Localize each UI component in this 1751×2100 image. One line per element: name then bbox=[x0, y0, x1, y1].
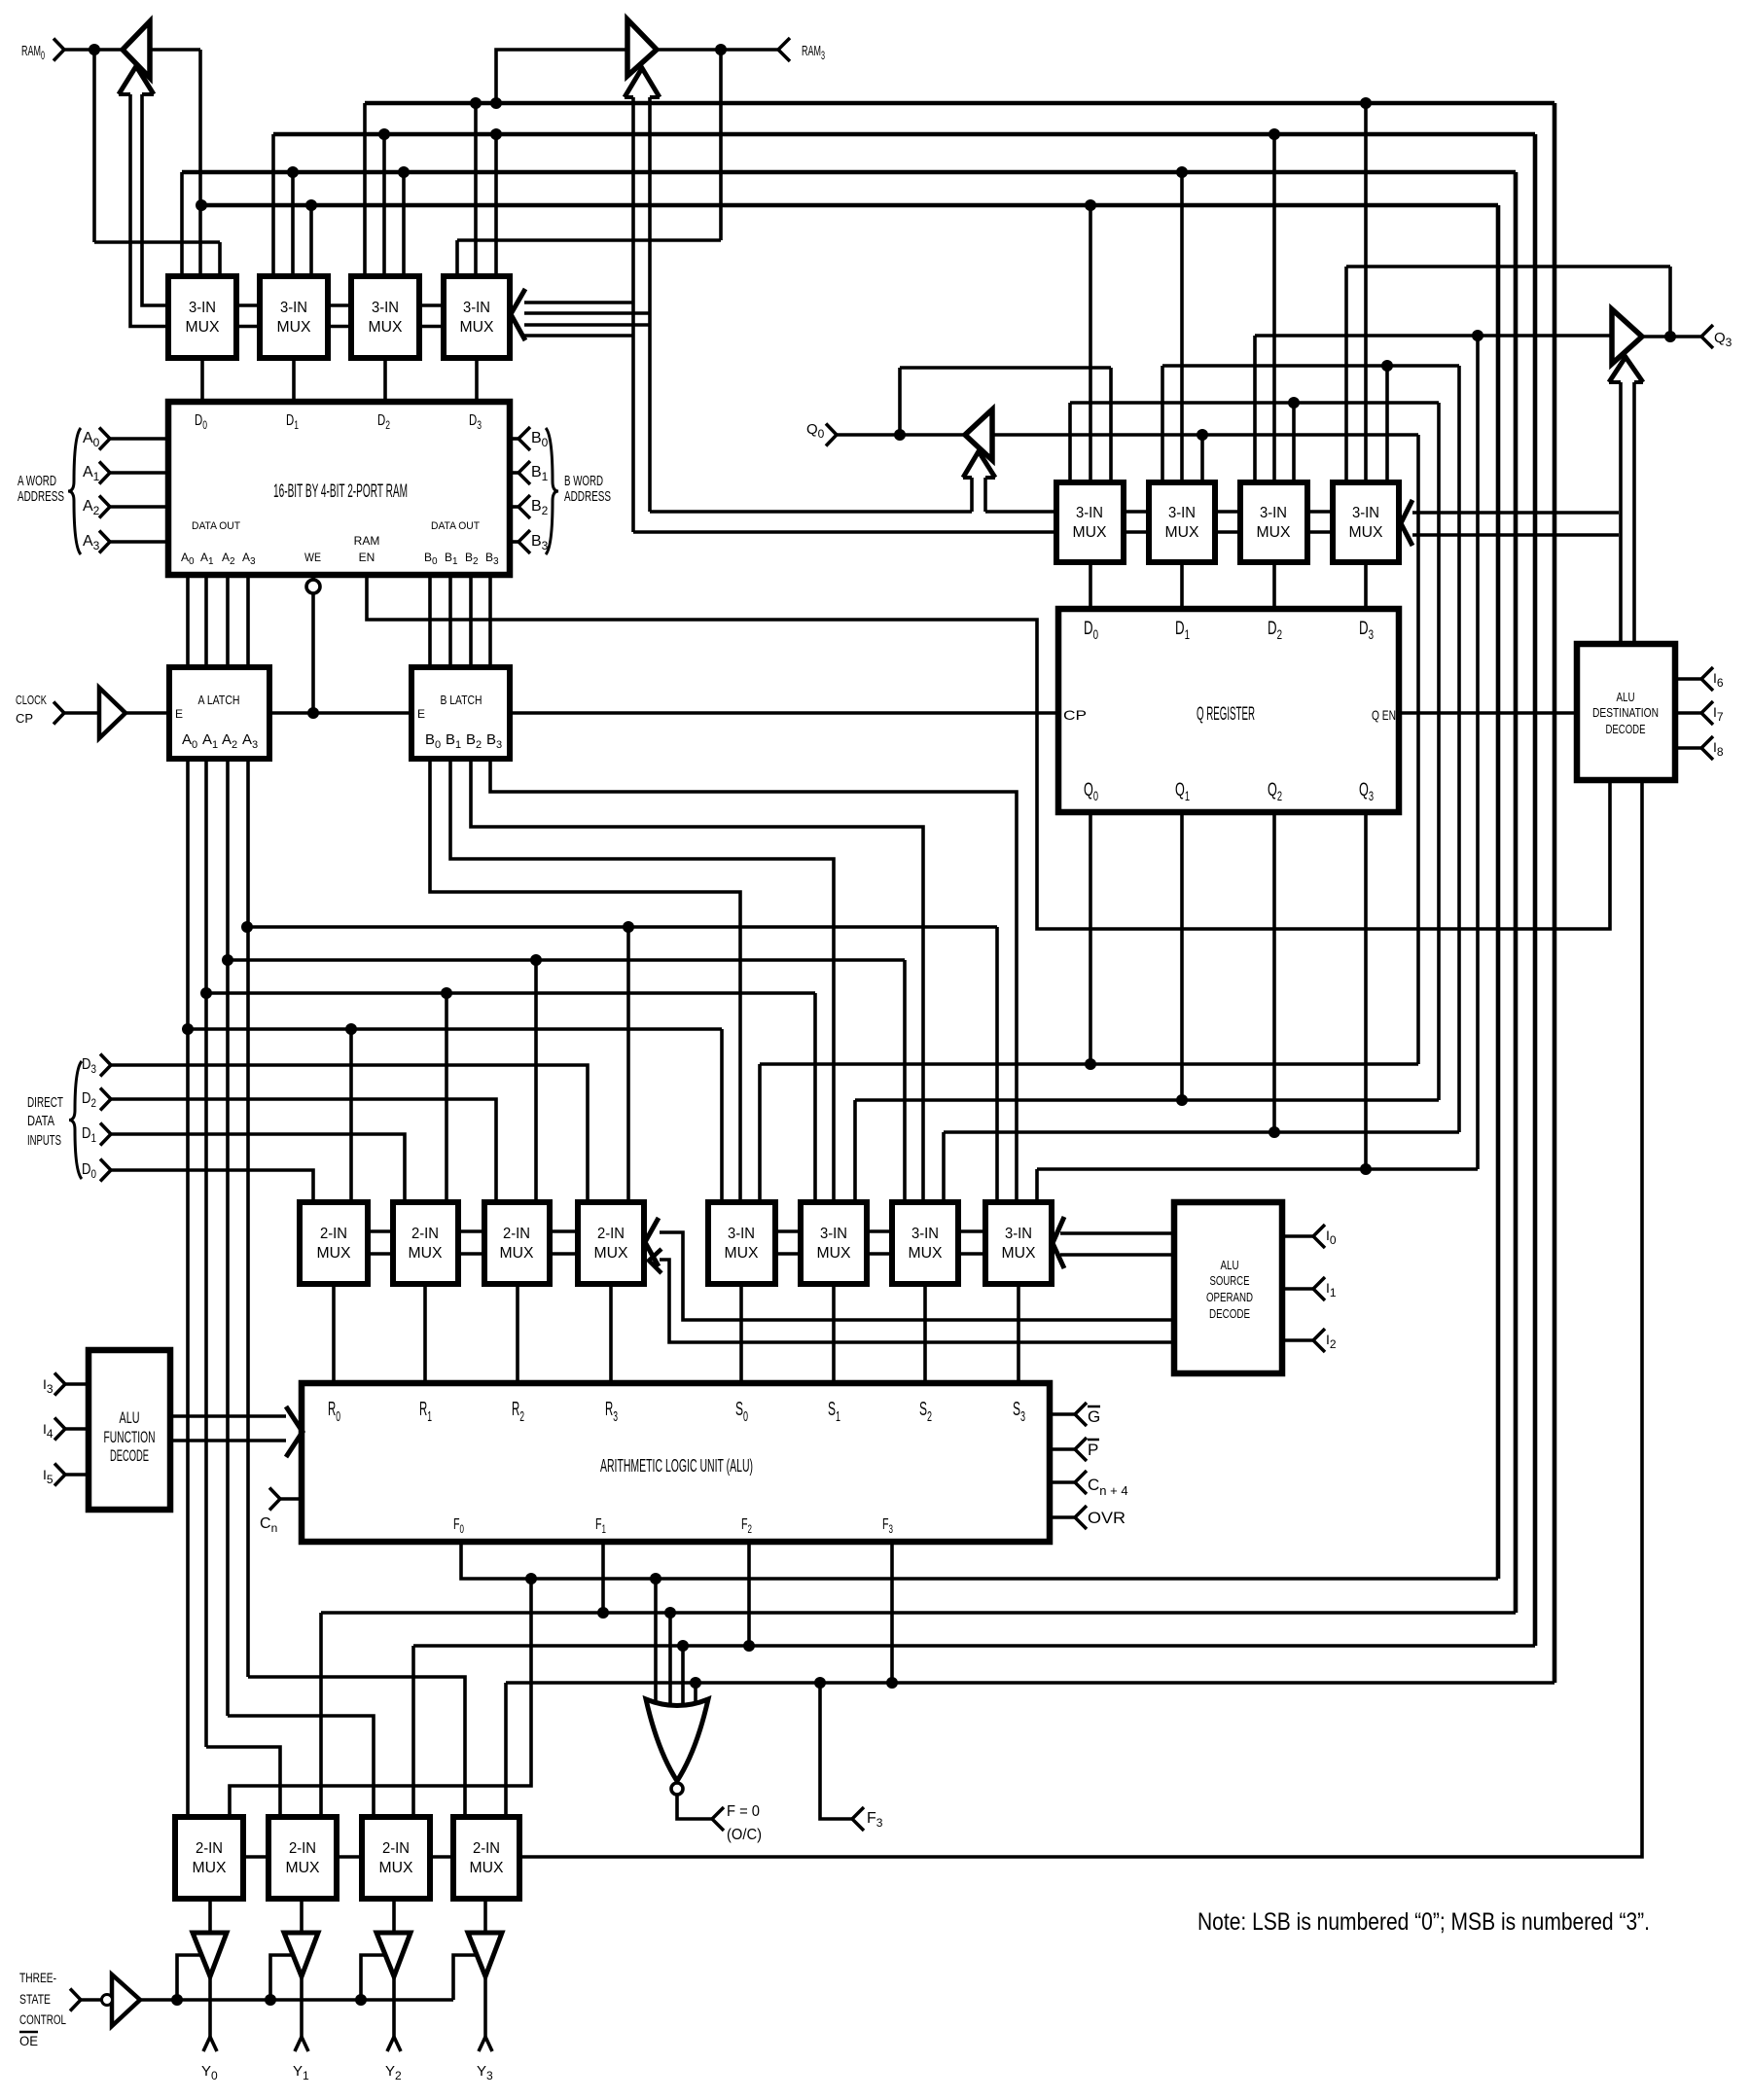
wire output mux select chain bbox=[519, 780, 1642, 1857]
wire Q1 into mux M7 pin3 bbox=[1292, 403, 1296, 486]
svg-text:DATA OUT: DATA OUT bbox=[431, 520, 480, 532]
wire Q2 line bbox=[944, 1130, 1459, 1134]
junction F2 M7 bbox=[1269, 128, 1280, 140]
pin B3 output bbox=[518, 530, 530, 553]
wire Q2 into mux M8 pin3 bbox=[1385, 366, 1389, 486]
svg-text:MUX: MUX bbox=[1349, 524, 1383, 541]
svg-text:INPUTS: INPUTS bbox=[27, 1132, 61, 1149]
buffer Y1 three-state bbox=[284, 1933, 318, 1976]
label ALU F0 bbox=[453, 1516, 464, 1536]
wire mux M6 to Q register D1 bbox=[1180, 562, 1184, 609]
ALU arithmetic logic unit bbox=[302, 1383, 1050, 1542]
label mux M13 3-IN MUX bbox=[725, 1226, 759, 1262]
svg-text:3-IN: 3-IN bbox=[280, 300, 307, 316]
svg-text:EN: EN bbox=[359, 551, 375, 564]
label mux M5 3-IN MUX bbox=[1073, 505, 1107, 541]
label B0 bbox=[531, 430, 549, 449]
wire clock buffer to A latch bbox=[125, 711, 169, 715]
pin D0 input bbox=[100, 1159, 111, 1182]
pin RAM0 input bbox=[54, 39, 64, 61]
junction Q0 pin bbox=[894, 429, 906, 441]
svg-text:MUX: MUX bbox=[460, 319, 494, 336]
wire Q mux chain upper left bbox=[650, 510, 972, 514]
wire OE branch Y2 bbox=[361, 1955, 387, 2000]
label Y0 bbox=[201, 2063, 218, 2082]
wire RAM3 junction drop bbox=[719, 50, 723, 240]
label F3 branch bbox=[867, 1810, 883, 1830]
wire G output stub bbox=[1050, 1412, 1075, 1416]
wire RAM0 pin to buffer bbox=[64, 48, 123, 52]
pin Y1 output bbox=[295, 2037, 308, 2051]
wire Y3 output bbox=[483, 1976, 487, 2037]
junction Q3 riser bbox=[1472, 330, 1483, 341]
label D0 bbox=[82, 1161, 96, 1181]
pin OE input bbox=[70, 1989, 81, 2011]
bubble WE bbox=[306, 580, 320, 593]
junction OE Y0 bbox=[171, 1994, 183, 2006]
wire F3 into NOR gate bbox=[694, 1683, 697, 1714]
svg-text:WE: WE bbox=[304, 551, 321, 564]
wire mux M18 to Y1 buffer bbox=[300, 1899, 304, 1934]
svg-text:ADDRESS: ADDRESS bbox=[18, 488, 64, 505]
brace A word address bbox=[68, 428, 81, 554]
wire RAM0 buffer output bbox=[150, 48, 200, 52]
svg-text:3-IN: 3-IN bbox=[728, 1226, 755, 1242]
wire F3 line bbox=[506, 1681, 1554, 1685]
label DIRECT DATA INPUTS bbox=[27, 1094, 63, 1149]
label note bbox=[1197, 1908, 1650, 1936]
label mux M18 2-IN MUX bbox=[286, 1840, 320, 1876]
wire B1 to mux M14 pin2 bbox=[450, 759, 834, 1206]
junction A2 fan bbox=[222, 954, 233, 966]
junction OE Y1 bbox=[265, 1994, 276, 2006]
wire I8 input bbox=[1675, 746, 1701, 750]
svg-text:MUX: MUX bbox=[817, 1245, 851, 1262]
wire Y1 output bbox=[300, 1976, 304, 2037]
svg-text:MUX: MUX bbox=[1257, 524, 1291, 541]
arrow RAM0 shift head bbox=[119, 66, 154, 94]
wire F3 into mux M20 bbox=[504, 1683, 508, 1821]
wire B3 address output stub bbox=[510, 540, 518, 544]
label Q register D3 bbox=[1359, 619, 1374, 642]
wire S mux chain M15-M16 bbox=[958, 1231, 985, 1254]
mux M1 3-IN bbox=[168, 276, 236, 358]
label ALU R1 bbox=[419, 1399, 432, 1425]
svg-text:G: G bbox=[1088, 1407, 1100, 1426]
wire Q0 line bbox=[760, 1062, 1418, 1066]
wire A1 to mux M18 bbox=[206, 1747, 280, 1821]
svg-text:STATE: STATE bbox=[19, 1992, 51, 2007]
svg-text:2-IN: 2-IN bbox=[289, 1840, 316, 1857]
wire Q1 riser bbox=[1437, 403, 1441, 1100]
svg-text:DECODE: DECODE bbox=[1606, 722, 1646, 736]
wire F0 to mux M5 pin2 bbox=[1089, 205, 1092, 486]
label I8 bbox=[1713, 739, 1724, 759]
wire OVR output stub bbox=[1050, 1515, 1075, 1519]
wire F3 bus bbox=[365, 101, 1554, 106]
wire enable A latch to B latch bbox=[269, 711, 411, 715]
label DATA OUT right bbox=[431, 520, 480, 532]
wire F1 into NOR gate bbox=[668, 1613, 672, 1710]
wire A3 address input bbox=[110, 540, 168, 544]
svg-text:MUX: MUX bbox=[725, 1245, 759, 1262]
svg-text:MUX: MUX bbox=[286, 1860, 320, 1876]
buffer Y3 three-state bbox=[468, 1933, 502, 1976]
mux M19 2-IN bbox=[362, 1817, 430, 1899]
junction F0 buffer bbox=[196, 199, 207, 211]
wire Q3 register to buffer bbox=[1255, 334, 1612, 338]
label mux M2 3-IN MUX bbox=[277, 300, 311, 336]
wire RAM mux chain M3-M4 bbox=[419, 305, 444, 327]
label Q register Q1 bbox=[1175, 780, 1190, 803]
wire A0 address input bbox=[110, 437, 168, 441]
svg-text:CLOCK: CLOCK bbox=[16, 693, 47, 707]
wire OE enable line bbox=[140, 1998, 453, 2002]
wire R mux select lower bbox=[660, 1260, 1174, 1342]
label A0 bbox=[83, 430, 100, 449]
wire Q3 junction rise bbox=[1668, 267, 1672, 337]
wire A2 into mux M15 pin1 bbox=[903, 960, 907, 1206]
arrow RAM3 head feet bbox=[625, 95, 633, 99]
label WE bbox=[304, 551, 321, 564]
arrow Q3 shift head bbox=[1609, 357, 1643, 382]
svg-text:ALU: ALU bbox=[1221, 1258, 1239, 1272]
junction Q1 reg line bbox=[1176, 1094, 1188, 1106]
junction F1 M2 bbox=[287, 166, 299, 178]
pin OVR output bbox=[1075, 1506, 1087, 1529]
wire mux M9 to ALU R0 bbox=[332, 1284, 336, 1383]
svg-text:MUX: MUX bbox=[277, 319, 311, 336]
wire RAM3 buffer output bbox=[657, 48, 778, 52]
wire Q3 shift shaft right bbox=[1632, 382, 1636, 644]
wire B3 to mux M16 pin2 bbox=[490, 759, 1017, 1206]
junction OE Y2 bbox=[355, 1994, 367, 2006]
svg-text:(O/C): (O/C) bbox=[727, 1827, 762, 1843]
junction Q2 reg line bbox=[1269, 1126, 1280, 1138]
junction F0 return bbox=[525, 1573, 537, 1584]
wire mux M20 to Y3 buffer bbox=[483, 1899, 487, 1934]
wire RAM0 buffer to F0 bus bbox=[198, 50, 202, 282]
label ALU title bbox=[600, 1456, 753, 1476]
label RAM3 bbox=[802, 43, 825, 62]
label RAM0 bbox=[21, 43, 45, 62]
pin D3 input bbox=[100, 1054, 111, 1077]
label mux M19 2-IN MUX bbox=[379, 1840, 413, 1876]
wire Q0 buffer feed line bbox=[992, 433, 1418, 437]
svg-text:MUX: MUX bbox=[369, 319, 403, 336]
pin I0 input bbox=[1313, 1225, 1325, 1248]
wire CLOCK input bbox=[64, 711, 99, 715]
arrow ALU function bus head bbox=[286, 1406, 303, 1457]
svg-text:OVR: OVR bbox=[1088, 1509, 1126, 1527]
label mux M15 3-IN MUX bbox=[909, 1226, 943, 1262]
wire A2 fan line bbox=[228, 958, 905, 962]
svg-text:3-IN: 3-IN bbox=[189, 300, 216, 316]
wire A0 into mux M9 pin2 bbox=[349, 1029, 353, 1206]
label RAM title bbox=[273, 481, 408, 502]
wire mux M7 to Q register D2 bbox=[1272, 562, 1276, 609]
wire F2 bus bbox=[273, 132, 1535, 137]
wire A latch A3 output bbox=[246, 759, 250, 1677]
wire Q0 riser bbox=[1416, 435, 1420, 1064]
wire F1 to mux M1 pin1 bbox=[180, 172, 184, 282]
wire S mux chain M13-M14 bbox=[775, 1231, 801, 1254]
wire A latch A0 output bbox=[186, 759, 190, 1821]
pin P output bbox=[1075, 1438, 1087, 1461]
wire F0 return to mux M17 bbox=[230, 1579, 531, 1821]
label I7 bbox=[1713, 704, 1724, 724]
label Q register Q0 bbox=[1084, 780, 1098, 803]
wire mux M2 to RAM D1 bbox=[292, 358, 296, 402]
label ALU R0 bbox=[328, 1399, 340, 1425]
arrow Q0 head feet b bbox=[985, 476, 995, 480]
mux M5 3-IN bbox=[1056, 482, 1124, 562]
label I5 bbox=[43, 1467, 54, 1486]
wire A1 into mux M14 pin1 bbox=[813, 993, 817, 1206]
wire Q0 shift shaft right bbox=[983, 478, 987, 512]
mux M14 3-IN bbox=[801, 1202, 867, 1284]
label Y1 bbox=[293, 2063, 309, 2082]
label G bar bbox=[1088, 1406, 1100, 1426]
svg-text:DATA OUT: DATA OUT bbox=[192, 520, 240, 532]
wire F0 to mux M2 pin3 bbox=[309, 205, 313, 282]
arrow Q3 head feet b bbox=[1634, 380, 1643, 384]
pin B2 output bbox=[518, 495, 530, 518]
wire WE stub bbox=[311, 575, 315, 580]
svg-text:E: E bbox=[417, 707, 425, 721]
wire F2 to mux M7 pin2 bbox=[1272, 134, 1276, 486]
arrow into mux M12 head lower bbox=[649, 1249, 661, 1273]
wire R mux chain M11-M12 bbox=[550, 1231, 578, 1254]
wire mux M3 to RAM D2 bbox=[383, 358, 387, 402]
label mux M14 3-IN MUX bbox=[817, 1226, 851, 1262]
label ALU F3 bbox=[882, 1516, 893, 1536]
wire F0 bus bbox=[201, 203, 1498, 208]
pin I4 input bbox=[54, 1418, 65, 1441]
label RAM D0 bbox=[195, 412, 207, 432]
svg-text:3-IN: 3-IN bbox=[1352, 505, 1379, 521]
wire A3 into mux M12 pin2 bbox=[626, 927, 630, 1206]
pin I8 input bbox=[1701, 736, 1713, 760]
junction Q2 M8 bbox=[1381, 360, 1393, 372]
wire Q3 shift shaft left bbox=[1619, 382, 1623, 644]
wire Y2 output bbox=[392, 1976, 396, 2037]
svg-text:Note: LSB is numbered “0”; MSB: Note: LSB is numbered “0”; MSB is number… bbox=[1197, 1908, 1650, 1936]
pin A2 input bbox=[99, 496, 110, 518]
wire A latch A2 output bbox=[226, 759, 230, 1716]
arrow Q0 head feet bbox=[963, 476, 972, 480]
svg-text:ALU: ALU bbox=[1617, 690, 1635, 704]
wire I6 input bbox=[1675, 677, 1701, 681]
arrow into mux M12 head bbox=[645, 1218, 659, 1266]
buffer RAM0 three-state bbox=[123, 21, 150, 78]
junction A1 fan bbox=[200, 987, 212, 999]
label B latch pins bbox=[425, 731, 502, 751]
wire A3 fan line bbox=[247, 925, 997, 929]
wire Q1 into mux M5 pin1 bbox=[1068, 403, 1072, 486]
wire F3 to mux M8 pin2 bbox=[1364, 103, 1368, 486]
pin Q3 output bbox=[1701, 325, 1713, 348]
wire Q mux chain upper right bbox=[985, 510, 1056, 514]
wire Y0 output bbox=[208, 1976, 212, 2037]
wire A1 into mux M10 pin2 bbox=[445, 993, 448, 1206]
svg-text:3-IN: 3-IN bbox=[1076, 505, 1103, 521]
label OVR bbox=[1088, 1509, 1126, 1527]
wire F3 to mux M3 pin1 bbox=[363, 103, 367, 282]
wire Q3 line bbox=[1037, 1167, 1478, 1171]
wire Q0 into mux M5 pin3 bbox=[1109, 368, 1113, 486]
pin RAM3 output bbox=[778, 38, 790, 61]
wire RAM3 pin shift line bbox=[457, 238, 721, 242]
pin Cn input bbox=[269, 1488, 280, 1511]
wire A0 fan line bbox=[188, 1027, 722, 1031]
wire F2 to mux M2 pin1 bbox=[271, 134, 275, 282]
label mux M6 3-IN MUX bbox=[1165, 505, 1199, 541]
label THREE-STATE CONTROL OE bbox=[19, 1971, 66, 2048]
wire S mux select lower bbox=[1060, 1253, 1174, 1257]
wire A3 into mux M16 pin1 bbox=[995, 927, 999, 1206]
buffer clock CP bbox=[99, 688, 125, 738]
wire mux M8 to Q register D3 bbox=[1364, 562, 1368, 609]
wire RAM B0 data out bbox=[428, 575, 432, 667]
wire RAM B2 data out bbox=[469, 575, 473, 667]
svg-text:16-BIT BY 4-BIT 2-PORT RAM: 16-BIT BY 4-BIT 2-PORT RAM bbox=[273, 481, 408, 502]
wire S mux chain M14-M15 bbox=[867, 1231, 892, 1254]
label RAM EN bbox=[354, 534, 380, 564]
label Q register D2 bbox=[1268, 619, 1282, 642]
wire Q mux chain lower bbox=[633, 530, 1056, 534]
pin G output bbox=[1075, 1403, 1087, 1426]
mux M8 3-IN bbox=[1333, 482, 1399, 562]
svg-text:MUX: MUX bbox=[1002, 1245, 1036, 1262]
wire Q mux chain M7-M8 bbox=[1307, 512, 1333, 532]
wire mux M14 to ALU S1 bbox=[832, 1284, 836, 1383]
svg-text:2-IN: 2-IN bbox=[382, 1840, 410, 1857]
junction Q0 reg line bbox=[1085, 1058, 1096, 1070]
wire output mux chain M18-M19 bbox=[337, 1855, 362, 1859]
svg-text:FUNCTION: FUNCTION bbox=[104, 1428, 156, 1446]
label I6 bbox=[1713, 670, 1724, 690]
brace B word address bbox=[546, 428, 558, 554]
svg-text:CP: CP bbox=[16, 711, 33, 726]
junction F0 M5 bbox=[1085, 199, 1096, 211]
wire RAM mux chain M1-M2 bbox=[236, 305, 260, 327]
wire D2 input bbox=[111, 1099, 496, 1206]
wire Cn input bbox=[280, 1497, 302, 1501]
wire F0 into NOR gate bbox=[654, 1579, 658, 1708]
junction F1 M6 bbox=[1176, 166, 1188, 178]
arrow RAM0 head feet bbox=[119, 92, 130, 96]
wire RAM EN bbox=[367, 575, 1610, 929]
label Q register Q2 bbox=[1268, 780, 1282, 803]
label mux M17 2-IN MUX bbox=[193, 1840, 227, 1876]
label Q register CP bbox=[1063, 707, 1087, 723]
wire RAM3 into mux M4 pin1 bbox=[455, 240, 459, 282]
label Q register Q3 bbox=[1359, 780, 1374, 803]
junction A0 M9 bbox=[345, 1023, 357, 1035]
label Cn+4 bbox=[1088, 1476, 1128, 1498]
arrow RAM0 head feet b bbox=[142, 92, 154, 96]
wire R mux chain M10-M11 bbox=[458, 1231, 484, 1254]
wire RAM0 junction drop bbox=[92, 50, 96, 242]
wire OE branch Y3 bbox=[453, 1955, 479, 2000]
wire Q0 pin to buffer bbox=[837, 433, 965, 437]
svg-text:THREE-: THREE- bbox=[19, 1971, 56, 1985]
wire F1 bus bbox=[182, 170, 1516, 175]
wire B0 address output stub bbox=[510, 437, 518, 441]
wire shaft stub d bbox=[524, 334, 633, 338]
bubble OE inverter input bbox=[102, 1995, 113, 2006]
svg-text:MUX: MUX bbox=[186, 319, 220, 336]
label Cn bbox=[260, 1515, 277, 1535]
wire A3 to mux M20 bbox=[248, 1677, 465, 1821]
wire mux M16 to ALU S3 bbox=[1017, 1284, 1020, 1383]
junction RAM3 pin bbox=[715, 44, 727, 55]
svg-text:ARITHMETIC LOGIC UNIT (ALU): ARITHMETIC LOGIC UNIT (ALU) bbox=[600, 1456, 753, 1476]
wire RAM0 shift shaft right bbox=[142, 94, 168, 305]
wire RAM B3 data out bbox=[488, 575, 492, 667]
wire Cn+4 output stub bbox=[1050, 1480, 1075, 1484]
pin D1 input bbox=[100, 1123, 111, 1146]
mux M12 2-IN bbox=[578, 1202, 644, 1284]
label I2 bbox=[1326, 1332, 1337, 1351]
wire A0 into mux M13 pin1 bbox=[720, 1029, 724, 1206]
mux M2 3-IN bbox=[260, 276, 328, 358]
wire B2 to mux M15 pin2 bbox=[471, 759, 923, 1206]
wire output mux chain M19-M20 bbox=[430, 1855, 453, 1859]
pin A0 input bbox=[99, 428, 110, 450]
label Q register D0 bbox=[1084, 619, 1098, 642]
label Q REGISTER bbox=[1197, 704, 1255, 725]
label I4 bbox=[43, 1421, 54, 1441]
wire enable B latch to Q register CP bbox=[510, 711, 1058, 715]
wire D1 input bbox=[111, 1134, 405, 1206]
wire mux M15 to ALU S2 bbox=[923, 1284, 927, 1383]
svg-text:RAM: RAM bbox=[354, 534, 380, 548]
wire A2 into mux M11 pin2 bbox=[534, 960, 538, 1206]
ALU source operand decode bbox=[1174, 1202, 1282, 1373]
wire B1 address output stub bbox=[510, 471, 518, 475]
svg-text:Q REGISTER: Q REGISTER bbox=[1197, 704, 1255, 725]
wire D0 input bbox=[111, 1170, 313, 1206]
label I1 bbox=[1326, 1280, 1337, 1299]
label RAM D1 bbox=[286, 412, 299, 432]
arrow RAM3 shift head bbox=[625, 68, 660, 97]
svg-text:B LATCH: B LATCH bbox=[441, 693, 482, 707]
arrow RAM3 head feet b bbox=[650, 95, 660, 99]
svg-text:2-IN: 2-IN bbox=[597, 1226, 625, 1242]
wire ALU function bus lower bbox=[170, 1439, 286, 1442]
wire mux M1 to RAM D0 bbox=[200, 358, 204, 402]
wire I5 input bbox=[65, 1473, 89, 1477]
wire D3 input bbox=[111, 1065, 588, 1206]
wire F3 output drop bbox=[890, 1542, 894, 1683]
wire F2 riser bbox=[1533, 134, 1538, 1646]
mux M11 2-IN bbox=[484, 1202, 550, 1284]
junction F3 out bbox=[814, 1677, 826, 1689]
wire F2 output drop bbox=[747, 1542, 751, 1646]
wire B0 to mux M13 pin2 bbox=[430, 759, 740, 1206]
arrow into mux M8 head bbox=[1401, 500, 1412, 546]
label I0 bbox=[1326, 1228, 1337, 1247]
wire A latch A1 output bbox=[204, 759, 208, 1747]
wire F3 to RAM3 buffer bbox=[496, 50, 627, 103]
label A3 bbox=[83, 533, 100, 552]
label A latch pins bbox=[182, 731, 258, 751]
svg-text:2-IN: 2-IN bbox=[411, 1226, 439, 1242]
wire F1 to mux M3 pin3 bbox=[402, 172, 406, 282]
pin I1 input bbox=[1313, 1277, 1325, 1300]
